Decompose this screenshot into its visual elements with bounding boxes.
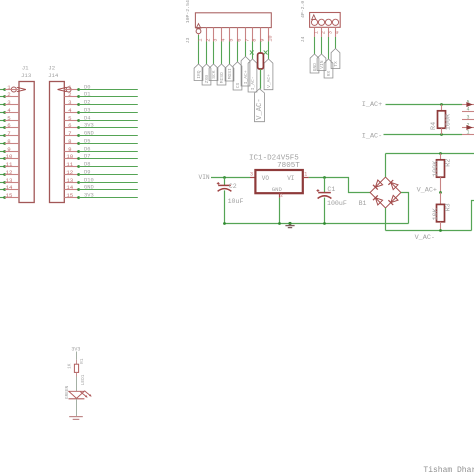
svg-text:3V3: 3V3 bbox=[71, 346, 80, 352]
svg-text:10: 10 bbox=[66, 153, 73, 160]
J2 pin 14 wire / net GND bbox=[64, 184, 138, 191]
svg-text:11: 11 bbox=[66, 161, 73, 168]
wire I_AC+ bbox=[386, 104, 463, 106]
J2 pin 1 marker bbox=[58, 87, 72, 92]
J3 net flag I_AC- bbox=[248, 59, 257, 92]
J2 pin 9 wire / net D6 bbox=[64, 146, 138, 153]
capacitor C1 bbox=[317, 178, 347, 224]
svg-text:7805T: 7805T bbox=[277, 162, 300, 170]
svg-text:CS: CS bbox=[235, 82, 241, 88]
svg-text:GREEN: GREEN bbox=[65, 385, 70, 399]
J1 pin 7 wire bbox=[0, 130, 19, 137]
svg-text:Tisham Dhar: Tisham Dhar bbox=[423, 466, 474, 474]
svg-text:3V3: 3V3 bbox=[84, 123, 94, 129]
svg-text:10: 10 bbox=[6, 153, 13, 160]
J1 pin 8 wire bbox=[0, 138, 19, 145]
svg-text:1: 1 bbox=[68, 84, 72, 91]
svg-text:3: 3 bbox=[212, 39, 218, 42]
AC top rail to right edge bbox=[386, 153, 474, 155]
J3 net flag MISO bbox=[217, 64, 226, 85]
svg-text:D8: D8 bbox=[84, 162, 90, 168]
svg-text:10P-2.54: 10P-2.54 bbox=[185, 0, 191, 23]
svg-text:I_AC-: I_AC- bbox=[362, 132, 382, 140]
svg-text:VIN: VIN bbox=[199, 174, 210, 181]
svg-text:I_AC+: I_AC+ bbox=[362, 101, 382, 109]
svg-text:11: 11 bbox=[6, 161, 13, 168]
svg-text:C2: C2 bbox=[229, 183, 237, 190]
J2 pin 7 wire / net GND bbox=[64, 130, 138, 137]
svg-text:15: 15 bbox=[66, 192, 73, 199]
svg-text:1: 1 bbox=[313, 31, 319, 34]
svg-text:9: 9 bbox=[7, 146, 11, 153]
J2 pin 11 wire / net D8 bbox=[64, 161, 138, 168]
node C1/GND bbox=[323, 222, 326, 225]
node R2 top bbox=[439, 152, 442, 155]
wire LED1 to ground bbox=[76, 399, 78, 417]
J2 pin 3 wire / net D2 bbox=[64, 99, 138, 106]
svg-text:8: 8 bbox=[7, 138, 11, 145]
connector J4 4P-2.0 bbox=[300, 1, 340, 43]
svg-text:D3: D3 bbox=[84, 108, 90, 114]
svg-text:13: 13 bbox=[6, 177, 13, 184]
svg-text:10K: 10K bbox=[432, 207, 440, 220]
svg-text:C1: C1 bbox=[327, 186, 335, 193]
J3 net flag MOSI bbox=[225, 64, 234, 81]
svg-text:1K: 1K bbox=[68, 363, 73, 369]
J1 pin 1 wire bbox=[0, 84, 19, 91]
svg-text:MISO: MISO bbox=[219, 72, 225, 83]
svg-text:RX: RX bbox=[326, 70, 332, 76]
J3 pin 3 wire bbox=[212, 28, 218, 64]
J2 pin 10 wire / net D7 bbox=[64, 153, 138, 160]
svg-text:8: 8 bbox=[68, 138, 72, 145]
svg-text:D4: D4 bbox=[84, 116, 90, 122]
voltage regulator IC1 7805T bbox=[249, 155, 307, 199]
svg-text:9: 9 bbox=[68, 146, 72, 153]
svg-text:7: 7 bbox=[68, 130, 71, 137]
svg-text:7: 7 bbox=[7, 130, 10, 137]
J4 net flag RX bbox=[324, 59, 333, 78]
J2 pin 12 wire / net D9 bbox=[64, 169, 138, 176]
V_AC- rail right bracket to edge bbox=[472, 201, 474, 231]
J3 pin 7 wire bbox=[244, 28, 250, 57]
resistor R2 bbox=[432, 154, 453, 193]
J3 pin 10 wire bbox=[267, 28, 273, 59]
J1 pin 5 wire bbox=[0, 115, 19, 122]
J1 pin 13 wire bbox=[0, 177, 19, 184]
J2 pin 13 wire / net D10 bbox=[64, 177, 138, 184]
J3 pin 1 marker bbox=[196, 24, 201, 34]
J4 net flag GND bbox=[310, 54, 319, 73]
svg-text:3: 3 bbox=[327, 31, 333, 34]
GND rail bbox=[225, 223, 409, 225]
svg-text:6: 6 bbox=[68, 122, 72, 129]
svg-text:J4: J4 bbox=[300, 37, 306, 43]
svg-text:MOSI: MOSI bbox=[227, 68, 233, 79]
svg-text:V_AC-: V_AC- bbox=[256, 98, 264, 120]
svg-text:GND: GND bbox=[272, 186, 283, 193]
svg-text:4: 4 bbox=[466, 106, 469, 112]
wire fuse to V_AC- flag bbox=[260, 69, 262, 89]
svg-text:B1: B1 bbox=[359, 200, 367, 207]
J4 net flag VIN bbox=[317, 54, 326, 71]
IC1 GND pin wire bbox=[279, 193, 281, 223]
svg-text:J3: J3 bbox=[185, 38, 191, 44]
J4 pin 4 wire bbox=[334, 27, 340, 48]
svg-text:2: 2 bbox=[320, 31, 326, 34]
J2 pin 5 wire / net D4 bbox=[64, 115, 138, 122]
J4 socket circle 4 bbox=[332, 19, 338, 25]
svg-text:IRQ: IRQ bbox=[196, 70, 202, 79]
resistor R4 bbox=[430, 105, 446, 135]
svg-text:3: 3 bbox=[68, 99, 72, 106]
svg-text:15: 15 bbox=[6, 192, 13, 199]
capacitor C2 bbox=[217, 178, 244, 224]
J4 pin 2 wire bbox=[320, 27, 326, 54]
ground symbol GND (regulator) bbox=[285, 222, 294, 228]
svg-text:D7: D7 bbox=[84, 154, 90, 160]
node V_AC+ bbox=[439, 191, 442, 194]
svg-text:J14: J14 bbox=[48, 72, 59, 79]
node C1 junction bbox=[323, 176, 326, 179]
J2 pin 4 wire / net D3 bbox=[64, 107, 138, 114]
svg-text:R1: R1 bbox=[80, 358, 85, 364]
wire bridge top to AC rail bbox=[385, 154, 387, 178]
svg-text:10: 10 bbox=[267, 35, 273, 41]
junction mark pin8 bbox=[250, 50, 254, 54]
svg-text:R2: R2 bbox=[445, 159, 453, 167]
svg-text:J2: J2 bbox=[48, 64, 55, 71]
svg-text:12: 12 bbox=[6, 169, 13, 176]
svg-text:14: 14 bbox=[66, 184, 73, 191]
IC1 VI pin stub bbox=[303, 177, 309, 179]
IC1 VO pin stub bbox=[250, 177, 255, 179]
svg-text:GND: GND bbox=[84, 185, 94, 191]
svg-text:1: 1 bbox=[7, 84, 11, 91]
svg-text:4: 4 bbox=[220, 39, 226, 42]
svg-text:100uF: 100uF bbox=[327, 200, 347, 207]
svg-text:J1: J1 bbox=[22, 64, 29, 71]
svg-text:TX: TX bbox=[333, 61, 339, 67]
connector J5 edge pins bbox=[462, 99, 474, 135]
svg-text:V_AC-: V_AC- bbox=[415, 234, 435, 242]
connector J3 10P-2.54 bbox=[185, 0, 271, 43]
J4 socket circle 2 bbox=[318, 19, 324, 25]
J1 pin 11 wire bbox=[0, 161, 19, 168]
node R4 bottom bbox=[440, 133, 443, 136]
svg-text:7: 7 bbox=[244, 39, 250, 42]
J4 socket circle 1 bbox=[311, 19, 317, 25]
J1 pin 12 wire bbox=[0, 169, 19, 176]
svg-text:5: 5 bbox=[7, 115, 11, 122]
J1 pin 1 marker bbox=[11, 87, 25, 92]
J3 pin 8 wire bbox=[251, 28, 257, 59]
svg-text:5: 5 bbox=[68, 115, 72, 122]
J2 pin 1 wire / net D0 bbox=[64, 84, 138, 91]
J1 pin 4 wire bbox=[0, 107, 19, 114]
svg-text:1: 1 bbox=[304, 171, 307, 177]
svg-text:4P-2.0: 4P-2.0 bbox=[300, 1, 306, 18]
J3 pin 4 wire bbox=[220, 28, 226, 64]
wire VI to bridge bbox=[309, 178, 370, 193]
svg-text:3: 3 bbox=[250, 171, 253, 177]
J4 pin 1 marker triangle bbox=[312, 15, 316, 20]
svg-text:13: 13 bbox=[66, 177, 73, 184]
svg-text:D10: D10 bbox=[84, 178, 94, 184]
svg-text:3: 3 bbox=[466, 114, 469, 120]
svg-text:100R: 100R bbox=[445, 114, 453, 130]
ground symbol GND (LED) bbox=[69, 417, 83, 420]
wire R1 to LED1 bbox=[76, 372, 78, 391]
svg-text:D6: D6 bbox=[84, 147, 90, 153]
node C2/GND bbox=[223, 222, 226, 225]
node VIN/C2 junction bbox=[223, 176, 226, 179]
svg-text:J13: J13 bbox=[21, 72, 32, 79]
J2 pin 8 wire / net D5 bbox=[64, 138, 138, 145]
J1 pin 15 wire bbox=[0, 192, 19, 199]
svg-text:4: 4 bbox=[334, 31, 340, 34]
wire I_AC- bbox=[384, 134, 463, 136]
svg-text:1: 1 bbox=[466, 129, 469, 135]
J3 net flag SCK bbox=[209, 64, 218, 81]
J2 pin 15 wire / net 3V3 bbox=[64, 192, 138, 199]
resistor R1 bbox=[68, 358, 86, 372]
node V_AC- bbox=[439, 229, 442, 232]
svg-text:D5: D5 bbox=[84, 139, 90, 145]
J3 pin 2 wire bbox=[205, 28, 211, 64]
J3 net flag CS bbox=[233, 62, 242, 90]
net flag V_AC- (large) bbox=[255, 89, 265, 122]
node R4 top bbox=[440, 103, 443, 106]
svg-text:D1: D1 bbox=[84, 92, 90, 98]
J3 net flag ZX0 bbox=[202, 64, 211, 85]
svg-text:12: 12 bbox=[66, 169, 73, 176]
svg-text:R4: R4 bbox=[430, 122, 438, 130]
J4 pin 1 wire bbox=[313, 27, 319, 54]
fuse F1 bbox=[258, 53, 264, 69]
svg-text:V_AC+: V_AC+ bbox=[266, 74, 272, 88]
J3 pin 5 wire bbox=[228, 28, 234, 64]
wire VIN to IC1 VO bbox=[211, 177, 250, 179]
connector J1 bbox=[19, 64, 34, 202]
svg-text:GND: GND bbox=[84, 131, 94, 137]
svg-text:LED1: LED1 bbox=[81, 374, 86, 385]
svg-text:100K: 100K bbox=[432, 160, 440, 177]
J4 socket circle 3 bbox=[325, 19, 331, 25]
svg-text:9: 9 bbox=[259, 39, 265, 42]
svg-text:VI: VI bbox=[287, 175, 294, 182]
J1 pin 10 wire bbox=[0, 153, 19, 160]
J4 pin 3 wire bbox=[327, 27, 333, 59]
wire bridge bottom to V_AC- rail bbox=[385, 208, 387, 231]
svg-text:3: 3 bbox=[7, 99, 11, 106]
J1 pin 14 wire bbox=[0, 184, 19, 191]
svg-text:2: 2 bbox=[205, 39, 211, 42]
svg-text:3V3: 3V3 bbox=[84, 193, 94, 199]
svg-text:1: 1 bbox=[197, 39, 203, 42]
J1 pin 2 wire bbox=[0, 91, 19, 98]
wire bridge right to GND rail bbox=[401, 193, 409, 224]
svg-text:2: 2 bbox=[7, 91, 11, 98]
svg-text:4: 4 bbox=[68, 107, 72, 114]
connector J2 bbox=[48, 64, 64, 202]
J2 pin 6 wire / net 3V3 bbox=[64, 122, 138, 129]
J2 pin 2 wire / net D1 bbox=[64, 91, 138, 98]
svg-text:D9: D9 bbox=[84, 170, 90, 176]
V_AC- rail bbox=[386, 230, 472, 232]
svg-text:V_AC+: V_AC+ bbox=[417, 187, 437, 195]
svg-text:8: 8 bbox=[251, 39, 257, 42]
bridge rectifier B1 bbox=[370, 177, 401, 208]
svg-text:VO: VO bbox=[262, 175, 270, 182]
svg-text:SCK: SCK bbox=[211, 70, 217, 79]
junction mark pin10 bbox=[264, 50, 268, 54]
J3 pin 1 wire bbox=[197, 34, 203, 64]
J3 net flag I_AC+ bbox=[241, 57, 250, 87]
svg-text:2: 2 bbox=[68, 91, 72, 98]
svg-text:D2: D2 bbox=[84, 100, 90, 106]
svg-text:I_AC-: I_AC- bbox=[250, 76, 256, 90]
LED LED1 bbox=[69, 391, 92, 399]
svg-text:5: 5 bbox=[228, 39, 234, 42]
J1 pin 9 wire bbox=[0, 146, 19, 153]
J3 pin 9 wire bbox=[259, 28, 265, 53]
svg-text:4: 4 bbox=[7, 107, 11, 114]
J3 net flag IRQ bbox=[194, 64, 203, 81]
svg-text:6: 6 bbox=[7, 122, 11, 129]
wire 3V3 to R1 bbox=[76, 352, 78, 365]
J4 net flag TX bbox=[331, 49, 340, 69]
svg-text:R3: R3 bbox=[445, 203, 453, 211]
J3 net flag V_AC+ bbox=[264, 59, 273, 90]
svg-text:6: 6 bbox=[236, 39, 242, 42]
svg-text:2: 2 bbox=[280, 193, 283, 199]
node IC GND bbox=[278, 222, 281, 225]
J1 pin 6 wire bbox=[0, 122, 19, 129]
J3 pin 6 wire bbox=[236, 28, 242, 62]
svg-text:D0: D0 bbox=[84, 85, 90, 91]
svg-text:10uF: 10uF bbox=[228, 198, 244, 205]
J1 pin 3 wire bbox=[0, 99, 19, 106]
svg-text:14: 14 bbox=[6, 184, 13, 191]
resistor R3 bbox=[432, 193, 453, 231]
